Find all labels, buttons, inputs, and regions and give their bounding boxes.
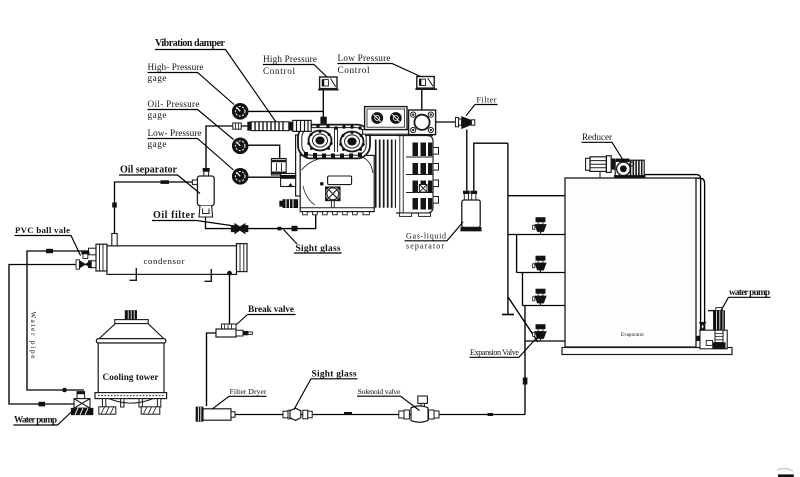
svg-text:High Pressure: High Pressure	[263, 54, 317, 64]
svg-text:water pump: water pump	[729, 287, 770, 297]
svg-text:High- Pressure: High- Pressure	[148, 62, 204, 72]
svg-text:PVC ball vale: PVC ball vale	[15, 225, 70, 235]
svg-text:Oil- Pressure: Oil- Pressure	[148, 99, 200, 109]
svg-text:Control: Control	[338, 65, 370, 75]
svg-text:Break valve: Break valve	[248, 305, 294, 315]
svg-text:Sight glass: Sight glass	[296, 244, 341, 254]
svg-text:gage: gage	[148, 110, 167, 120]
svg-text:Sight glass: Sight glass	[312, 370, 357, 380]
svg-text:Water pipe: Water pipe	[29, 312, 37, 359]
svg-text:Solenoid valve: Solenoid valve	[358, 387, 402, 396]
svg-text:condensor: condensor	[144, 256, 185, 266]
svg-text:Expansion Valve: Expansion Valve	[470, 348, 519, 357]
svg-text:Cooling tower: Cooling tower	[103, 372, 159, 382]
svg-text:Oil filter: Oil filter	[153, 210, 196, 221]
svg-text:Filter: Filter	[477, 96, 497, 105]
svg-text:Evaporator: Evaporator	[621, 333, 644, 338]
svg-text:Low Pressure: Low Pressure	[338, 53, 391, 63]
svg-text:Water pump: Water pump	[14, 415, 57, 425]
svg-text:Gas-liquid: Gas-liquid	[406, 232, 446, 241]
svg-text:Filter Dryer: Filter Dryer	[230, 387, 267, 396]
svg-text:separator: separator	[406, 242, 444, 251]
svg-text:Oil separator: Oil separator	[120, 165, 178, 176]
svg-text:Reducer: Reducer	[582, 132, 612, 142]
svg-text:Low- Pressure: Low- Pressure	[148, 128, 202, 138]
svg-text:gage: gage	[148, 139, 167, 149]
svg-text:Control: Control	[263, 66, 295, 76]
svg-text:gage: gage	[148, 73, 167, 83]
svg-text:Vibration damper: Vibration damper	[155, 38, 226, 49]
